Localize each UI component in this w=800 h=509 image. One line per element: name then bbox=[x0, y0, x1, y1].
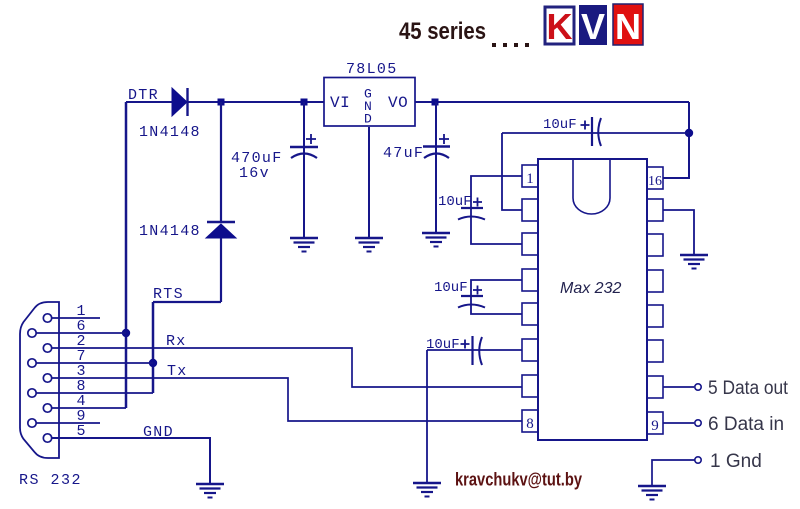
wire DTR vertical to DB9 bbox=[125, 102, 128, 408]
ground at pin15 bbox=[680, 255, 708, 269]
wire DB9 pin9 stub bbox=[37, 422, 101, 424]
junction node at D2 top bbox=[218, 99, 225, 106]
svg-text:10uF: 10uF bbox=[426, 337, 460, 353]
pin number 9 (DB9) bbox=[76, 408, 85, 425]
svg-text:5 Data out: 5 Data out bbox=[708, 378, 789, 399]
capacitor C3 10uF (pin2 to VCC) bbox=[502, 117, 689, 146]
value label 10uF (C4) bbox=[438, 194, 472, 210]
svg-text:1N4148: 1N4148 bbox=[139, 223, 201, 240]
pin 8 (U1) bbox=[522, 410, 538, 432]
pin 7 (U1) bbox=[522, 375, 538, 397]
ground for 78L05 bbox=[355, 238, 383, 252]
wire DB9 pin5 GND net bbox=[52, 438, 210, 483]
DB9 pin 6 contact bbox=[28, 329, 36, 337]
pin 14 (U1) bbox=[647, 234, 663, 256]
pin 5 (U1) bbox=[522, 303, 538, 325]
wire DTR to diode bbox=[126, 101, 172, 103]
pin 16 (U1) bbox=[647, 167, 663, 189]
value label 10uF (C5) bbox=[434, 280, 468, 296]
svg-text:47uF: 47uF bbox=[383, 145, 424, 162]
DB9 pin 2 contact bbox=[43, 344, 51, 352]
DB9 connector J1 shell bbox=[20, 302, 59, 458]
wire 78L05 GND pin bbox=[368, 127, 370, 237]
svg-text:K: K bbox=[547, 6, 573, 47]
regulator U2 78L05 bbox=[324, 61, 415, 127]
svg-text:78L05: 78L05 bbox=[346, 61, 398, 78]
wire diode to 78L05 VI bbox=[187, 101, 324, 103]
pin number 2 (DB9) bbox=[76, 333, 85, 350]
svg-text:RS 232: RS 232 bbox=[19, 472, 82, 489]
value label 47uF bbox=[383, 145, 424, 162]
diode D2 1N4148 vertical bbox=[206, 102, 236, 302]
value label 10uF (C3) bbox=[543, 117, 577, 133]
DB9 pin 7 contact bbox=[28, 359, 36, 367]
pin number 6 (DB9) bbox=[76, 318, 85, 335]
svg-text:9: 9 bbox=[651, 418, 659, 434]
ground for C2 bbox=[422, 233, 450, 247]
junction node at C2 top bbox=[432, 99, 439, 106]
ground for GND net bbox=[196, 484, 224, 498]
junction node pin6 DB9 bbox=[122, 329, 130, 337]
svg-text:Rx: Rx bbox=[166, 333, 187, 350]
svg-text:GND: GND bbox=[143, 424, 174, 441]
wire DB9 pin8 to RTS bbox=[37, 392, 154, 394]
terminal 5 Data out bbox=[663, 378, 789, 399]
pin 2 (U1) bbox=[522, 199, 538, 221]
pin number 5 (DB9) bbox=[76, 423, 85, 440]
DB9 pin 8 contact bbox=[28, 389, 36, 397]
wire C6 to ground bbox=[426, 350, 428, 482]
title 45 series bbox=[399, 18, 529, 47]
svg-text:kravchukv@tut.by: kravchukv@tut.by bbox=[455, 470, 582, 490]
pin 3 (U1) bbox=[522, 233, 538, 255]
node RTS label bbox=[153, 286, 184, 303]
pin 10 (U1) bbox=[647, 376, 663, 398]
pin number 1 (DB9) bbox=[76, 303, 85, 320]
svg-text:1: 1 bbox=[526, 171, 534, 187]
logo KVN bbox=[545, 4, 643, 47]
capacitor C1 470uF 16v bbox=[290, 102, 318, 237]
wire DB9 pin1 stub bbox=[52, 317, 100, 319]
DB9 pin 9 contact bbox=[28, 419, 36, 427]
node Rx label bbox=[166, 333, 187, 350]
svg-text:10uF: 10uF bbox=[438, 194, 472, 210]
wire DB9 pin4 to DTR bbox=[52, 407, 126, 409]
node DTR label bbox=[128, 87, 159, 104]
wire C3 to pin2 bbox=[502, 133, 522, 210]
svg-text:Max 232: Max 232 bbox=[560, 280, 621, 297]
pin number 4 (DB9) bbox=[76, 393, 85, 410]
svg-text:N: N bbox=[615, 6, 641, 47]
value label 10uF (C6) bbox=[426, 337, 460, 353]
pin number 7 (DB9) bbox=[76, 348, 85, 365]
IC U1 Max232 body bbox=[538, 159, 647, 440]
ground for C1 bbox=[290, 238, 318, 252]
svg-text:10uF: 10uF bbox=[434, 280, 468, 296]
wire DB9 pin6 to DTR bbox=[37, 332, 127, 334]
DB9 pin 4 contact bbox=[43, 404, 51, 412]
terminal 1 Gnd bbox=[652, 451, 762, 485]
DB9 pin 1 contact bbox=[43, 314, 51, 322]
pin number 8 (DB9) bbox=[76, 378, 85, 395]
wire pin15 to ground bbox=[663, 210, 694, 254]
ground for C6 bbox=[413, 483, 441, 497]
svg-text:16: 16 bbox=[648, 174, 662, 189]
pin 13 (U1) bbox=[647, 270, 663, 292]
svg-text:Tx: Tx bbox=[167, 363, 188, 380]
pin number 3 (DB9) bbox=[76, 363, 85, 380]
terminal 6 Data in bbox=[663, 414, 784, 435]
wire DB9 pin2 Rx net bbox=[52, 348, 522, 387]
svg-text:45 series: 45 series bbox=[399, 18, 486, 45]
wire RTS horizontal bbox=[153, 301, 221, 303]
capacitor C6 10uF (pin6 to ground) bbox=[427, 336, 522, 365]
wire VO rail to right bbox=[415, 101, 689, 103]
node Tx label bbox=[167, 363, 188, 380]
svg-text:V: V bbox=[581, 6, 605, 47]
capacitor C4 10uF (pin1 to pin3) bbox=[458, 176, 522, 244]
node GND label bbox=[143, 424, 174, 441]
ground for 1 Gnd bbox=[638, 486, 666, 500]
svg-text:VO: VO bbox=[388, 94, 408, 112]
diode D1 1N4148 bbox=[172, 88, 188, 116]
wire RTS vertical to DB9 bbox=[152, 302, 155, 393]
svg-text:16v: 16v bbox=[239, 165, 270, 182]
svg-text:VI: VI bbox=[330, 94, 350, 112]
pin 11 (U1) bbox=[647, 340, 663, 362]
author text kravchukv@tut.by bbox=[455, 470, 582, 490]
wire DB9 pin7 to RTS bbox=[37, 362, 154, 364]
junction node C3 top right bbox=[685, 129, 693, 137]
pin 15 (U1) bbox=[647, 199, 663, 221]
pin 9 (U1) bbox=[647, 412, 663, 434]
wire VCC right vertical to pin16 bbox=[663, 102, 689, 178]
svg-text:10uF: 10uF bbox=[543, 117, 577, 133]
svg-text:5: 5 bbox=[76, 423, 85, 440]
svg-text:D: D bbox=[364, 112, 372, 127]
capacitor C2 47uF bbox=[423, 102, 450, 232]
junction node pin7 DB9 bbox=[149, 359, 157, 367]
junction node at C1 top bbox=[301, 99, 308, 106]
svg-text:1 Gnd: 1 Gnd bbox=[710, 451, 762, 472]
value label 1N4148 (D2) bbox=[139, 223, 201, 240]
DB9 pin 5 contact bbox=[43, 434, 51, 442]
pin 12 (U1) bbox=[647, 305, 663, 327]
svg-text:6 Data in: 6 Data in bbox=[708, 414, 784, 435]
wire DB9 pin3 Tx net bbox=[52, 378, 522, 421]
pin 4 (U1) bbox=[522, 269, 538, 291]
value label 1N4148 (D1) bbox=[139, 124, 201, 141]
DB9 pin 3 contact bbox=[43, 374, 51, 382]
svg-text:RTS: RTS bbox=[153, 286, 184, 303]
pin 1 (U1) bbox=[522, 165, 538, 187]
svg-text:1N4148: 1N4148 bbox=[139, 124, 201, 141]
pin 6 (U1) bbox=[522, 339, 538, 361]
svg-text:8: 8 bbox=[526, 416, 534, 432]
connector label RS 232 bbox=[19, 472, 82, 489]
capacitor C5 10uF (pin4 to pin5) bbox=[458, 280, 522, 314]
value label 470uF 16v bbox=[231, 150, 283, 182]
